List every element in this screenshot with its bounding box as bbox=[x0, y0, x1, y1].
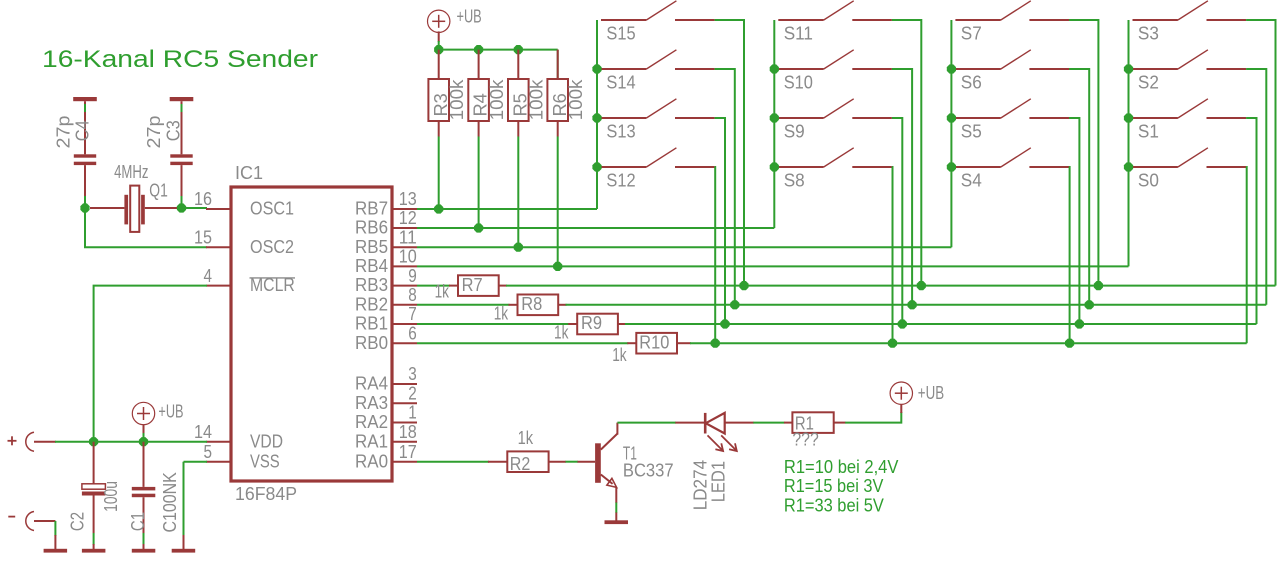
switch S11 bbox=[778, 1, 892, 20]
wire R9 to matrix row RB1 bbox=[618, 323, 626, 325]
wire S12 to row net bbox=[714, 167, 717, 343]
svg-text:S7: S7 bbox=[961, 24, 982, 44]
power +UB symbol top bbox=[428, 10, 450, 32]
svg-text:16-Kanal RC5 Sender: 16-Kanal RC5 Sender bbox=[42, 46, 318, 73]
LED light arrow 2 bbox=[721, 435, 736, 450]
ground (flipped) above C3 bbox=[170, 97, 194, 101]
pin 2 stub bbox=[392, 402, 417, 404]
junction S2 column bus bbox=[1124, 64, 1133, 73]
svg-text:IC1: IC1 bbox=[235, 163, 263, 183]
capacitor C1 C100NK bbox=[143, 442, 145, 487]
svg-text:RB0: RB0 bbox=[355, 333, 388, 353]
wire R8 to matrix row RB2 bbox=[558, 304, 566, 306]
junction RB5 R5 bbox=[514, 243, 523, 252]
LED light arrow 1 bbox=[708, 435, 723, 450]
junction S9 column bus bbox=[770, 113, 779, 122]
svg-text:100k: 100k bbox=[566, 79, 586, 121]
svg-text:OSC2: OSC2 bbox=[250, 237, 294, 257]
svg-text:4: 4 bbox=[204, 266, 213, 286]
junction RB7 R3 bbox=[434, 204, 443, 213]
svg-text:1: 1 bbox=[408, 403, 417, 423]
switch S2 bbox=[1133, 50, 1247, 69]
transistor T1 BC337 bbox=[595, 423, 617, 503]
svg-text:11: 11 bbox=[399, 227, 417, 247]
wire XTAL2 to OSC1 pin 16 bbox=[182, 207, 208, 209]
svg-text:1k: 1k bbox=[554, 323, 569, 343]
junction VDD C2 bbox=[89, 437, 98, 446]
resistor R2 1k bbox=[507, 451, 548, 472]
pin 15 stub bbox=[206, 246, 231, 248]
wire R2 to T1 base bbox=[549, 461, 566, 463]
junction bus R3 bbox=[434, 45, 443, 54]
svg-text:S6: S6 bbox=[961, 73, 982, 93]
svg-text:16: 16 bbox=[194, 189, 212, 209]
svg-text:RB6: RB6 bbox=[355, 218, 388, 238]
svg-text:18: 18 bbox=[399, 422, 417, 442]
switch S7 bbox=[955, 1, 1069, 20]
power +UB symbol right bbox=[890, 382, 912, 404]
op-amp IC1 16F84P body bbox=[231, 187, 392, 481]
svg-text:RB1: RB1 bbox=[355, 314, 388, 334]
resistor R1 bbox=[792, 412, 833, 433]
svg-text:+UB: +UB bbox=[918, 383, 944, 403]
svg-text:RA4: RA4 bbox=[355, 374, 388, 394]
resistor R3 100k bbox=[438, 50, 440, 79]
svg-text:BC337: BC337 bbox=[623, 460, 674, 480]
svg-text:27p: 27p bbox=[144, 116, 164, 149]
wire VSS to ground bbox=[184, 461, 208, 463]
wire S10 to row net bbox=[892, 69, 912, 305]
svg-text:C2: C2 bbox=[68, 512, 88, 531]
svg-text:S2: S2 bbox=[1138, 73, 1159, 93]
svg-text:RB3: RB3 bbox=[355, 275, 388, 295]
pin 13 stub bbox=[392, 208, 417, 210]
wire T1 emitter to ground bbox=[615, 503, 617, 514]
ground under T1 bbox=[615, 513, 617, 521]
ground under VSS bbox=[183, 535, 185, 549]
pin 5 stub bbox=[206, 461, 231, 463]
switch S9 bbox=[778, 99, 892, 118]
junction bus R5 bbox=[514, 45, 523, 54]
resistor R5 100k bbox=[517, 50, 519, 79]
svg-text:R7: R7 bbox=[462, 275, 483, 295]
wire net RB6 bbox=[417, 227, 774, 229]
svg-text:+UB: +UB bbox=[158, 402, 183, 422]
svg-text:R1=33 bei 5V: R1=33 bei 5V bbox=[784, 496, 884, 516]
pin 8 stub bbox=[392, 304, 417, 306]
junction S1 column bus bbox=[1124, 113, 1133, 122]
switch S14 bbox=[601, 50, 715, 69]
svg-text:100k: 100k bbox=[487, 79, 507, 121]
svg-text:OSC1: OSC1 bbox=[250, 199, 294, 219]
wire LED to R1 bbox=[725, 422, 754, 424]
wire R4 down to row bbox=[478, 137, 480, 229]
junction S5 column bus bbox=[947, 113, 956, 122]
svg-text:2: 2 bbox=[408, 383, 417, 403]
junction RB1 S13 bbox=[720, 319, 729, 328]
pin 3 stub bbox=[392, 383, 417, 385]
svg-text:S11: S11 bbox=[784, 24, 813, 44]
svg-text:S9: S9 bbox=[784, 122, 805, 142]
terminal - connector bbox=[26, 512, 34, 531]
junction S12 column bus bbox=[592, 162, 601, 171]
wire R3 down to row bbox=[438, 137, 440, 210]
svg-text:13: 13 bbox=[399, 189, 417, 209]
switch S3 bbox=[1133, 1, 1247, 20]
svg-text:12: 12 bbox=[399, 208, 417, 228]
svg-text:RA1: RA1 bbox=[355, 431, 388, 451]
wire S0 to row net bbox=[1245, 167, 1248, 343]
svg-text:R2: R2 bbox=[510, 454, 531, 474]
resistor R6 100k bbox=[557, 50, 559, 79]
wire ground to C3 bbox=[181, 104, 183, 113]
svg-text:S14: S14 bbox=[606, 73, 635, 93]
wire net RB4 bbox=[417, 265, 1129, 267]
wire S6 to row net bbox=[1069, 69, 1089, 305]
svg-text:LD274: LD274 bbox=[690, 460, 710, 510]
svg-text:S13: S13 bbox=[606, 122, 635, 142]
pin 11 stub bbox=[392, 246, 417, 248]
switch S0 bbox=[1133, 148, 1247, 167]
switch S1 bbox=[1133, 99, 1247, 118]
svg-text:R9: R9 bbox=[581, 313, 602, 333]
svg-text:5: 5 bbox=[204, 442, 213, 462]
wire RB2 pin to R8 bbox=[417, 304, 510, 306]
wire S5 to row net bbox=[1069, 118, 1079, 324]
junction RB6 R4 bbox=[474, 223, 483, 232]
wire R10 to matrix row RB0 bbox=[677, 342, 691, 344]
ground under - terminal bbox=[54, 535, 56, 549]
svg-text:RA0: RA0 bbox=[355, 451, 388, 471]
capacitor C2 100u bbox=[93, 442, 95, 485]
svg-text:9: 9 bbox=[408, 266, 417, 286]
svg-text:1k: 1k bbox=[612, 345, 627, 365]
wire net RB5 bbox=[417, 246, 951, 248]
wire S4 to row net bbox=[1068, 167, 1071, 343]
svg-text:LED1: LED1 bbox=[709, 461, 729, 502]
svg-text:6: 6 bbox=[408, 323, 417, 343]
junction S14 column bus bbox=[592, 64, 601, 73]
wire RB3 pin to R7 bbox=[417, 285, 450, 287]
svg-text:14: 14 bbox=[194, 422, 212, 442]
ground under C2 bbox=[93, 544, 95, 549]
svg-text:16F84P: 16F84P bbox=[235, 484, 297, 504]
wire R5 down to row bbox=[517, 137, 519, 248]
wire S2 to row net bbox=[1246, 69, 1266, 305]
junction RB2 S10 bbox=[908, 300, 917, 309]
wire R1 to +UB bbox=[834, 422, 846, 424]
wire ground to C4 bbox=[84, 104, 86, 113]
junction RB4 R6 bbox=[553, 262, 562, 271]
svg-text:100k: 100k bbox=[527, 79, 547, 121]
LED LED1 LD274 bbox=[705, 413, 725, 434]
junction S10 column bus bbox=[770, 64, 779, 73]
wire S1 to row net bbox=[1246, 118, 1256, 324]
svg-text:S3: S3 bbox=[1138, 24, 1159, 44]
junction RB3 S15 bbox=[739, 281, 748, 290]
svg-text:S12: S12 bbox=[606, 171, 635, 191]
svg-text:7: 7 bbox=[408, 304, 417, 324]
svg-text:RA2: RA2 bbox=[355, 412, 388, 432]
wire +UB to VDD net bbox=[143, 424, 145, 434]
pin 12 stub bbox=[392, 227, 417, 229]
wire C3 to node XTAL2 bbox=[181, 196, 183, 208]
junction RB3 S11 bbox=[917, 281, 926, 290]
ground under C1 bbox=[143, 544, 145, 549]
MCLR overline bbox=[250, 277, 296, 279]
svg-text:1k: 1k bbox=[494, 303, 509, 323]
wire S7 to row net bbox=[1069, 20, 1098, 286]
svg-text:100k: 100k bbox=[447, 79, 467, 121]
pin 4 stub bbox=[206, 285, 231, 287]
svg-text:S8: S8 bbox=[784, 171, 805, 191]
resistor R8 1k bbox=[518, 295, 559, 316]
junction RB2 S6 bbox=[1085, 300, 1094, 309]
svg-text:RA3: RA3 bbox=[355, 393, 388, 413]
svg-text:R10: R10 bbox=[639, 333, 669, 353]
pin 6 stub bbox=[392, 342, 417, 344]
svg-text:RB4: RB4 bbox=[355, 256, 388, 276]
junction RB1 S9 bbox=[898, 319, 907, 328]
switch S5 bbox=[955, 99, 1069, 118]
terminal + connector bbox=[26, 432, 34, 451]
wire +UB to bus bbox=[438, 31, 440, 42]
crystal Q1 4MHz bbox=[90, 207, 124, 209]
wire S9 to row net bbox=[892, 118, 902, 324]
svg-text:4MHz: 4MHz bbox=[114, 162, 148, 182]
svg-text:S5: S5 bbox=[961, 122, 982, 142]
pin 10 stub bbox=[392, 265, 417, 267]
svg-text:VSS: VSS bbox=[250, 451, 280, 471]
switch S13 bbox=[601, 99, 715, 118]
pin 9 stub bbox=[392, 285, 417, 287]
wire T1 collector to LED bbox=[617, 422, 676, 424]
switch S6 bbox=[955, 50, 1069, 69]
junction RB2 S14 bbox=[730, 300, 739, 309]
wire S13 to row net bbox=[715, 118, 725, 324]
wire S14 to row net bbox=[715, 69, 735, 305]
svg-text:10: 10 bbox=[399, 247, 417, 267]
junction VDD C1 bbox=[139, 437, 148, 446]
wire resistor bus top bbox=[439, 49, 558, 51]
pin 16 stub bbox=[206, 208, 231, 210]
junction RB1 S5 bbox=[1075, 319, 1084, 328]
pin 18 stub bbox=[392, 441, 417, 443]
svg-text:RB5: RB5 bbox=[355, 237, 388, 257]
svg-text:8: 8 bbox=[408, 285, 417, 305]
node XTAL2 junction bbox=[177, 203, 186, 212]
ground (flipped) above C4 bbox=[73, 97, 97, 101]
wire C4 to node XTAL1 bbox=[84, 196, 86, 208]
resistor R10 1k bbox=[636, 333, 677, 354]
resistor R7 1k bbox=[458, 275, 499, 296]
svg-text:RB2: RB2 bbox=[355, 294, 388, 314]
wire net RB7 bbox=[417, 208, 597, 210]
capacitor C4 27p bbox=[84, 112, 86, 154]
wire - terminal to ground bbox=[34, 520, 55, 522]
wire C2 to ground bbox=[93, 533, 95, 545]
switch S10 bbox=[778, 50, 892, 69]
junction RB3 S7 bbox=[1094, 281, 1103, 290]
svg-text:1k: 1k bbox=[435, 281, 450, 301]
junction RB0 S4 bbox=[1065, 339, 1074, 348]
wire S15 to row net bbox=[715, 20, 744, 286]
wire MCLR net bbox=[94, 286, 207, 442]
svg-text:S15: S15 bbox=[606, 24, 635, 44]
svg-text:S10: S10 bbox=[784, 73, 813, 93]
resistor R9 1k bbox=[577, 314, 618, 335]
wire S11 to row net bbox=[892, 20, 921, 286]
svg-text:R1=10 bei 2,4V: R1=10 bei 2,4V bbox=[784, 457, 899, 477]
svg-text:C1: C1 bbox=[128, 512, 148, 531]
svg-text:15: 15 bbox=[194, 227, 212, 247]
switch S4 bbox=[955, 148, 1069, 167]
wire RA0 to R2 bbox=[417, 461, 489, 463]
wire C1 to ground bbox=[143, 533, 145, 545]
svg-text:???: ??? bbox=[792, 430, 818, 450]
power +UB symbol bottom bbox=[132, 402, 154, 424]
pin 7 stub bbox=[392, 323, 417, 325]
pin 1 stub bbox=[392, 422, 417, 424]
junction S0 column bus bbox=[1124, 162, 1133, 171]
switch S12 bbox=[601, 148, 715, 167]
pin 14 stub bbox=[206, 441, 231, 443]
svg-text:S1: S1 bbox=[1138, 122, 1159, 142]
junction bus R4 bbox=[474, 45, 483, 54]
switch S8 bbox=[778, 148, 892, 167]
svg-text:Q1: Q1 bbox=[149, 181, 168, 201]
wire S3 to row net bbox=[1246, 20, 1275, 286]
junction S8 column bus bbox=[770, 162, 779, 171]
wire R6 down to row bbox=[557, 137, 559, 267]
wire RB1 pin to R9 bbox=[417, 323, 569, 325]
switch S15 bbox=[601, 1, 715, 20]
svg-text:S0: S0 bbox=[1138, 171, 1159, 191]
svg-text:C3: C3 bbox=[164, 120, 184, 141]
pin 17 stub bbox=[392, 461, 417, 463]
wire RB0 pin to R10 bbox=[417, 342, 628, 344]
svg-text:+UB: +UB bbox=[457, 7, 482, 27]
svg-text:17: 17 bbox=[399, 442, 417, 462]
resistor R4 100k bbox=[478, 50, 480, 79]
wire XTAL1 to OSC2 pin 15 bbox=[85, 208, 207, 247]
svg-text:S4: S4 bbox=[961, 171, 982, 191]
node XTAL1 junction bbox=[80, 203, 89, 212]
junction S13 column bus bbox=[592, 113, 601, 122]
junction RB0 S12 bbox=[711, 339, 720, 348]
svg-text:VDD: VDD bbox=[250, 431, 283, 451]
junction S4 column bus bbox=[947, 162, 956, 171]
svg-text:R1=15 bei 3V: R1=15 bei 3V bbox=[784, 476, 884, 496]
label + bbox=[8, 440, 17, 442]
svg-text:R8: R8 bbox=[521, 294, 542, 314]
junction RB0 S8 bbox=[888, 339, 897, 348]
svg-text:100u: 100u bbox=[101, 481, 121, 512]
svg-text:C4: C4 bbox=[72, 120, 92, 141]
junction S6 column bus bbox=[947, 64, 956, 73]
svg-text:3: 3 bbox=[408, 364, 417, 384]
label - bbox=[8, 516, 15, 518]
svg-text:C100NK: C100NK bbox=[160, 472, 180, 532]
capacitor C3 27p bbox=[181, 112, 183, 154]
svg-text:RB7: RB7 bbox=[355, 199, 388, 219]
wire S8 to row net bbox=[891, 167, 894, 343]
wire R7 to matrix row RB3 bbox=[499, 285, 507, 287]
svg-text:1k: 1k bbox=[518, 428, 534, 448]
wire + terminal to VDD bbox=[34, 441, 56, 443]
svg-text:27p: 27p bbox=[54, 116, 74, 149]
